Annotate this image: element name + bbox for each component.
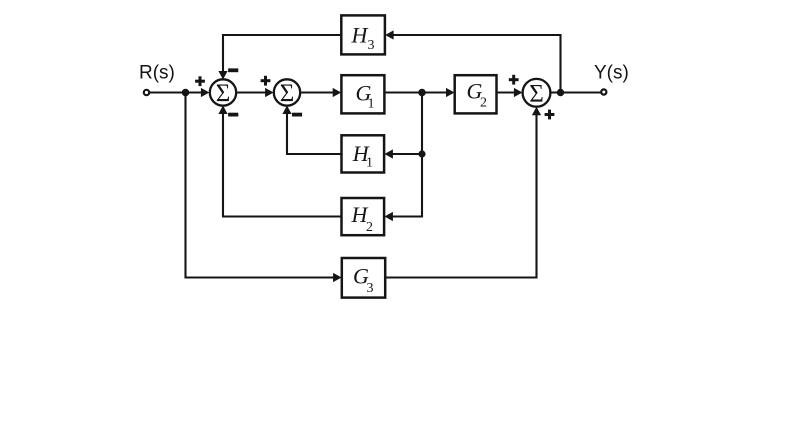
- block G2: [455, 75, 497, 113]
- svg-text:Σ: Σ: [280, 80, 295, 107]
- wire H3 to S1 top input: [218, 35, 341, 80]
- node A (input branch): [182, 89, 190, 97]
- wire H1 to S2 bottom input: [282, 106, 341, 155]
- block H3: [341, 15, 385, 54]
- plus sign S3 bottom input: [545, 110, 555, 120]
- wire R(s) to summing junction S1: [149, 88, 209, 97]
- svg-text:3: 3: [367, 281, 374, 296]
- node B (G1 output branch): [418, 89, 426, 97]
- svg-text:Y(s): Y(s): [594, 63, 629, 84]
- wire node D to block H1: [384, 149, 422, 158]
- svg-text:2: 2: [366, 220, 373, 235]
- block G1: [341, 75, 384, 113]
- plus sign S3 left input: [509, 75, 519, 85]
- block H2: [342, 198, 385, 235]
- block H1: [342, 135, 385, 172]
- wire node B down to node D: [421, 93, 423, 155]
- wire S3 to output terminal: [550, 91, 601, 93]
- plus sign S2 left input: [261, 76, 271, 86]
- svg-text:3: 3: [368, 38, 375, 53]
- terminal Y(s) output: [601, 89, 606, 94]
- svg-text:1: 1: [368, 97, 375, 112]
- node C (output branch): [557, 89, 564, 96]
- svg-text:H: H: [351, 23, 369, 48]
- minus sign S2 bottom input: [292, 113, 302, 117]
- svg-text:Σ: Σ: [529, 81, 544, 108]
- wire output node to block H3: [385, 30, 560, 92]
- minus sign S1 bottom input: [228, 113, 238, 117]
- node D (H1/H2 branch): [418, 150, 425, 157]
- svg-text:Σ: Σ: [216, 80, 231, 107]
- plus sign S1 left input: [195, 76, 205, 86]
- wire node A to block G3: [186, 93, 342, 283]
- wire H2 to S1 bottom input: [218, 106, 341, 217]
- summing junction S1: [210, 79, 236, 107]
- summing junction S2: [274, 79, 300, 107]
- wire G3 to S3 bottom input: [385, 107, 541, 278]
- wire G2 to summing junction S3: [497, 88, 523, 97]
- minus sign S1 top input: [228, 68, 238, 72]
- block G3: [342, 258, 385, 298]
- svg-text:2: 2: [480, 95, 487, 110]
- svg-text:1: 1: [366, 155, 373, 170]
- wire node D to block H2: [384, 154, 422, 221]
- summing junction S3: [523, 79, 551, 108]
- wire S1 to summing junction S2: [236, 88, 273, 97]
- wire G1 to block G2: [384, 88, 454, 97]
- terminal R(s) input: [144, 90, 149, 95]
- svg-text:R(s): R(s): [139, 63, 175, 84]
- wire S2 to block G1: [300, 88, 341, 97]
